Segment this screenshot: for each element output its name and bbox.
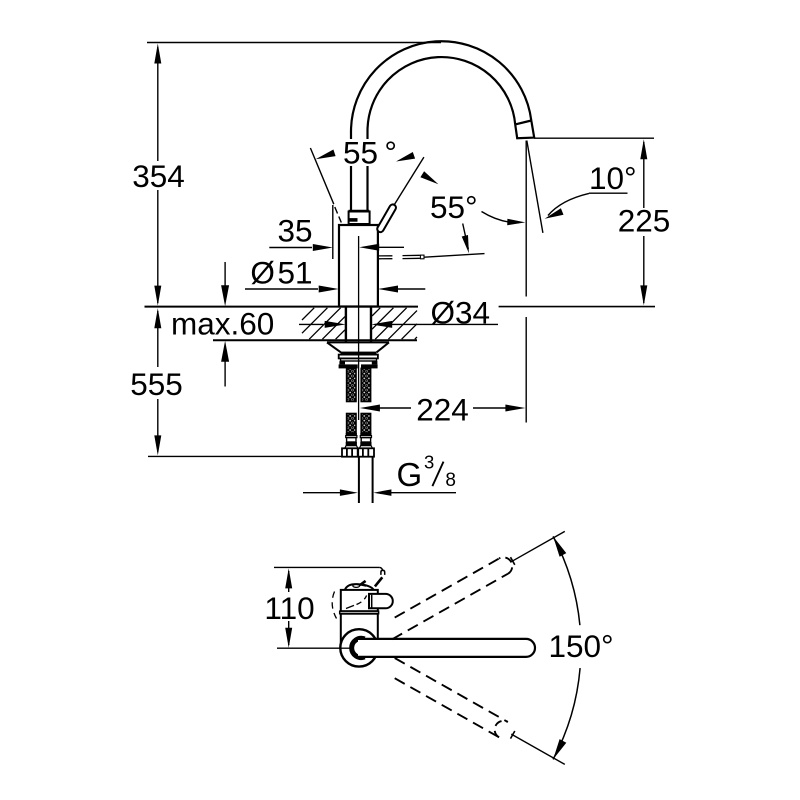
hose end fitting left [346, 433, 357, 436]
wire riser tube right edge [366, 132, 368, 211]
hose braid right upper [361, 368, 370, 401]
hose braid right lower [361, 414, 370, 434]
svg-text:10°: 10° [589, 160, 637, 196]
top-view spout capsule [358, 639, 535, 657]
top-view spout tube end [352, 638, 365, 657]
union nut left [342, 448, 358, 456]
top-view lever swing dashed arc [332, 592, 336, 619]
supply pipe left edge [358, 457, 360, 503]
wire spout tip vertical extension line [525, 141, 527, 297]
hose collar left [339, 361, 345, 364]
node 55 deg crossing arrow lower [420, 171, 438, 184]
wire swivel range dashed spout upper [395, 559, 499, 618]
svg-text:Ø 51: Ø 51 [250, 255, 312, 291]
top-view swivel base circle [340, 629, 377, 666]
wire swivel range dashed spout lower [395, 658, 508, 722]
hose collar right [372, 361, 378, 364]
svg-text:max.60: max.60 [171, 306, 274, 342]
faucet collar set screw [350, 218, 358, 222]
mounting nut lower band [341, 358, 377, 361]
mounting nut [339, 355, 378, 359]
svg-text:224: 224 [416, 392, 469, 428]
svg-text:3: 3 [424, 452, 434, 473]
top-view lever dome [345, 584, 374, 590]
node 225 dimension line [640, 139, 647, 159]
hose end fitting right [360, 433, 371, 436]
wire body center line [358, 236, 360, 420]
faucet cartridge collar [349, 212, 370, 225]
node 55 deg handle label [341, 139, 399, 166]
lever handle closed position [376, 203, 397, 233]
top-view dome cap detail [353, 584, 360, 587]
spout inner arc [367, 57, 515, 131]
top-view body lower block [341, 614, 378, 642]
svg-text:555: 555 [130, 366, 183, 402]
svg-text:225: 225 [618, 203, 671, 239]
wire spout stream 10deg line [527, 141, 543, 233]
svg-text:55°: 55° [430, 189, 478, 225]
spout outer arc [351, 41, 531, 131]
supply pipe right edge [372, 457, 374, 503]
svg-text:110: 110 [264, 590, 314, 626]
wire countertop top line [145, 306, 419, 308]
node G3/8 dimension line [303, 492, 340, 494]
faucet body [339, 225, 378, 307]
top-view lever phantom dashes [346, 605, 354, 608]
node 224 dimension line [360, 405, 380, 412]
wire 225 top reference line [534, 137, 654, 139]
node 150 deg arc [553, 536, 580, 625]
node dia51 dimension line [245, 288, 318, 290]
node 10 deg leader [548, 193, 589, 215]
hose nut left [339, 364, 358, 368]
svg-text:G: G [397, 456, 423, 493]
top-view block lip [340, 611, 379, 614]
node 55 deg handle arrow left [316, 150, 336, 160]
wire lever open position line [310, 148, 333, 204]
svg-text:55 °: 55 ° [343, 135, 397, 171]
node 55 deg crossing arrow upper [396, 152, 415, 162]
node 110 dimension line [285, 568, 292, 588]
faucet shank right edge [370, 307, 372, 343]
svg-text:35: 35 [277, 212, 312, 248]
mounting flange [327, 341, 389, 343]
wire top reference line (spout height) [147, 42, 441, 44]
node 55 deg swivel leader right [482, 212, 520, 223]
wire countertop bottom line [213, 339, 417, 341]
mounting washer band [341, 352, 377, 355]
node 35 dimension line [269, 247, 312, 249]
svg-text:8: 8 [445, 470, 456, 491]
node 354 dimension line [154, 44, 161, 64]
spout nozzle cut line [515, 121, 531, 125]
union nut right [358, 448, 374, 456]
node 555 dimension line [154, 308, 161, 328]
wire top-view rear reference line [274, 566, 380, 568]
wire lever swing leader hook [380, 567, 383, 570]
wire top-view axis reference line [277, 647, 354, 649]
wire countertop top line right extension [499, 306, 655, 308]
node 55 deg swivel leader down [463, 224, 469, 250]
wire countertop hatching [302, 308, 314, 320]
hose nut right [361, 364, 378, 368]
svg-text:354: 354 [132, 158, 185, 194]
wire lever axis extension line [394, 157, 424, 206]
wire hose end reference line [148, 455, 342, 457]
node 35 extension line [332, 205, 334, 259]
hose braid left lower [347, 414, 356, 434]
wire aerator axis marks [379, 255, 393, 257]
svg-text:150°: 150° [549, 628, 614, 664]
wire riser tube left edge [350, 132, 352, 211]
top-view cartridge block [341, 590, 378, 611]
faucet collar joint line [349, 210, 370, 212]
wire axis line into hub [341, 647, 354, 649]
top-view lever grip [369, 594, 393, 608]
spout nozzle outlet [515, 121, 534, 139]
node max.60 dimension arrows [224, 262, 226, 287]
faucet shank left edge [345, 307, 347, 343]
hose braid left upper [347, 368, 356, 401]
node dia34 dimension line [299, 323, 323, 325]
